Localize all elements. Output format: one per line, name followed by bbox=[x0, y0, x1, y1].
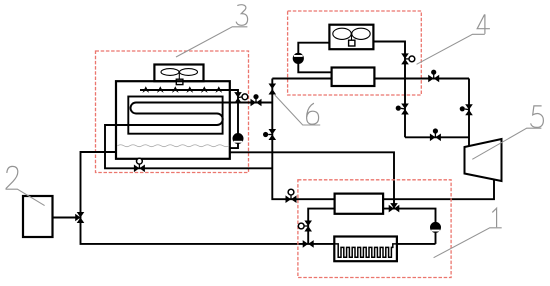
valve on fan loop right pipe bbox=[401, 53, 409, 64]
label 5 leader bbox=[472, 128, 541, 159]
fan loop right pipe bbox=[373, 42, 405, 79]
fan F3 hub box bbox=[176, 79, 183, 84]
valve with motor on coil outlet line bbox=[251, 99, 262, 107]
refrigerant line from E4 to bridge bbox=[374, 78, 469, 80]
boundary box 1 (dashed) bbox=[298, 180, 451, 278]
water tank of unit 3 bbox=[116, 81, 230, 159]
compressor 5 body bbox=[465, 139, 502, 181]
label 6 digit bbox=[307, 103, 319, 124]
evaporator coil serpentine bbox=[105, 103, 272, 169]
spray circulation pump P3 bbox=[233, 134, 243, 144]
heater element square-wave bbox=[334, 244, 397, 257]
tank side water line A to unit 1 bbox=[230, 152, 394, 208]
fan F4 housing bbox=[329, 25, 373, 50]
refrigerant drop pipe from unit 4 to unit 1 bbox=[272, 79, 334, 200]
spray header pipe bbox=[140, 90, 238, 148]
valve on drop pipe upper bbox=[269, 84, 277, 95]
boundary box 3 (dashed) bbox=[96, 51, 249, 173]
fan F3 housing bbox=[154, 65, 203, 82]
actuator circle of tank bottom valve bbox=[138, 164, 140, 168]
compressor discharge pipe bbox=[383, 180, 494, 199]
spray nozzle 6 bbox=[215, 86, 222, 93]
label 4 leader bbox=[417, 34, 485, 64]
label 6 leader bbox=[275, 95, 320, 125]
valve with actuator before unit 1 inlet bbox=[286, 195, 297, 203]
valve with motor on bridge left pipe bbox=[401, 104, 409, 115]
spray nozzle 1 bbox=[142, 86, 149, 93]
circulation pump P1 bbox=[431, 223, 441, 233]
label 1 leader bbox=[434, 228, 502, 258]
water loop left riser of unit 1 bbox=[308, 209, 334, 244]
water source tank 2 bbox=[23, 196, 53, 237]
valve with actuator on tank bottom line bbox=[134, 165, 145, 173]
bridge right vertical pipe into compressor bbox=[468, 79, 470, 147]
fan F4 hub box bbox=[349, 40, 355, 46]
refrigerant line through unit 4 bbox=[272, 78, 331, 80]
fan loop left pipe through pump bbox=[298, 43, 331, 73]
three-way valve at line A junction bbox=[389, 203, 400, 212]
bridge left vertical pipe bbox=[404, 79, 406, 138]
water level wavy line bbox=[118, 145, 230, 147]
bridge bottom pipe bbox=[405, 136, 469, 138]
label 5 digit bbox=[531, 106, 544, 128]
actuator circle of fan loop valve bbox=[405, 58, 409, 60]
three-way valve at tank 2 junction bbox=[75, 212, 84, 223]
spray nozzle 4 bbox=[186, 86, 193, 93]
spray nozzle 2 bbox=[157, 86, 164, 93]
label 3 leader bbox=[176, 27, 247, 57]
coolant pump P4 bbox=[293, 54, 303, 64]
water loop right pipe with pump bbox=[383, 209, 435, 244]
valve with motor on bridge top line bbox=[428, 75, 439, 83]
fan F4 blades bbox=[333, 28, 370, 40]
coil enclosure box bbox=[128, 97, 222, 134]
actuator circle of spray riser valve bbox=[238, 96, 242, 99]
valve with actuator on left riser bbox=[304, 221, 312, 232]
spray nozzle 5 bbox=[201, 86, 208, 93]
valve with motor on drop pipe middle bbox=[269, 129, 277, 140]
pipe from tank 2 to riser bbox=[53, 217, 81, 219]
boundary box 4 (dashed) bbox=[288, 11, 422, 95]
heat exchanger E1 bbox=[335, 194, 384, 214]
label 4 digit bbox=[477, 14, 490, 34]
label 2 digit bbox=[6, 166, 18, 188]
finned heater H1 bbox=[334, 237, 397, 262]
spray nozzle 3 bbox=[172, 86, 179, 93]
heat exchanger E4 bbox=[332, 68, 375, 87]
label 2 leader bbox=[6, 189, 45, 205]
fan F3 blades bbox=[161, 69, 198, 80]
motor dot of coil outlet valve bbox=[255, 99, 257, 103]
valve with motor on bridge right pipe bbox=[465, 104, 473, 115]
valve on spray riser bbox=[234, 92, 242, 103]
label 1 digit bbox=[492, 208, 496, 227]
valve at bottom line junction bbox=[303, 240, 314, 248]
label 3 digit bbox=[236, 5, 248, 26]
tank water outlet pipe to unit 2 riser bbox=[81, 152, 436, 244]
valve with motor on bridge bottom pipe bbox=[430, 134, 441, 142]
